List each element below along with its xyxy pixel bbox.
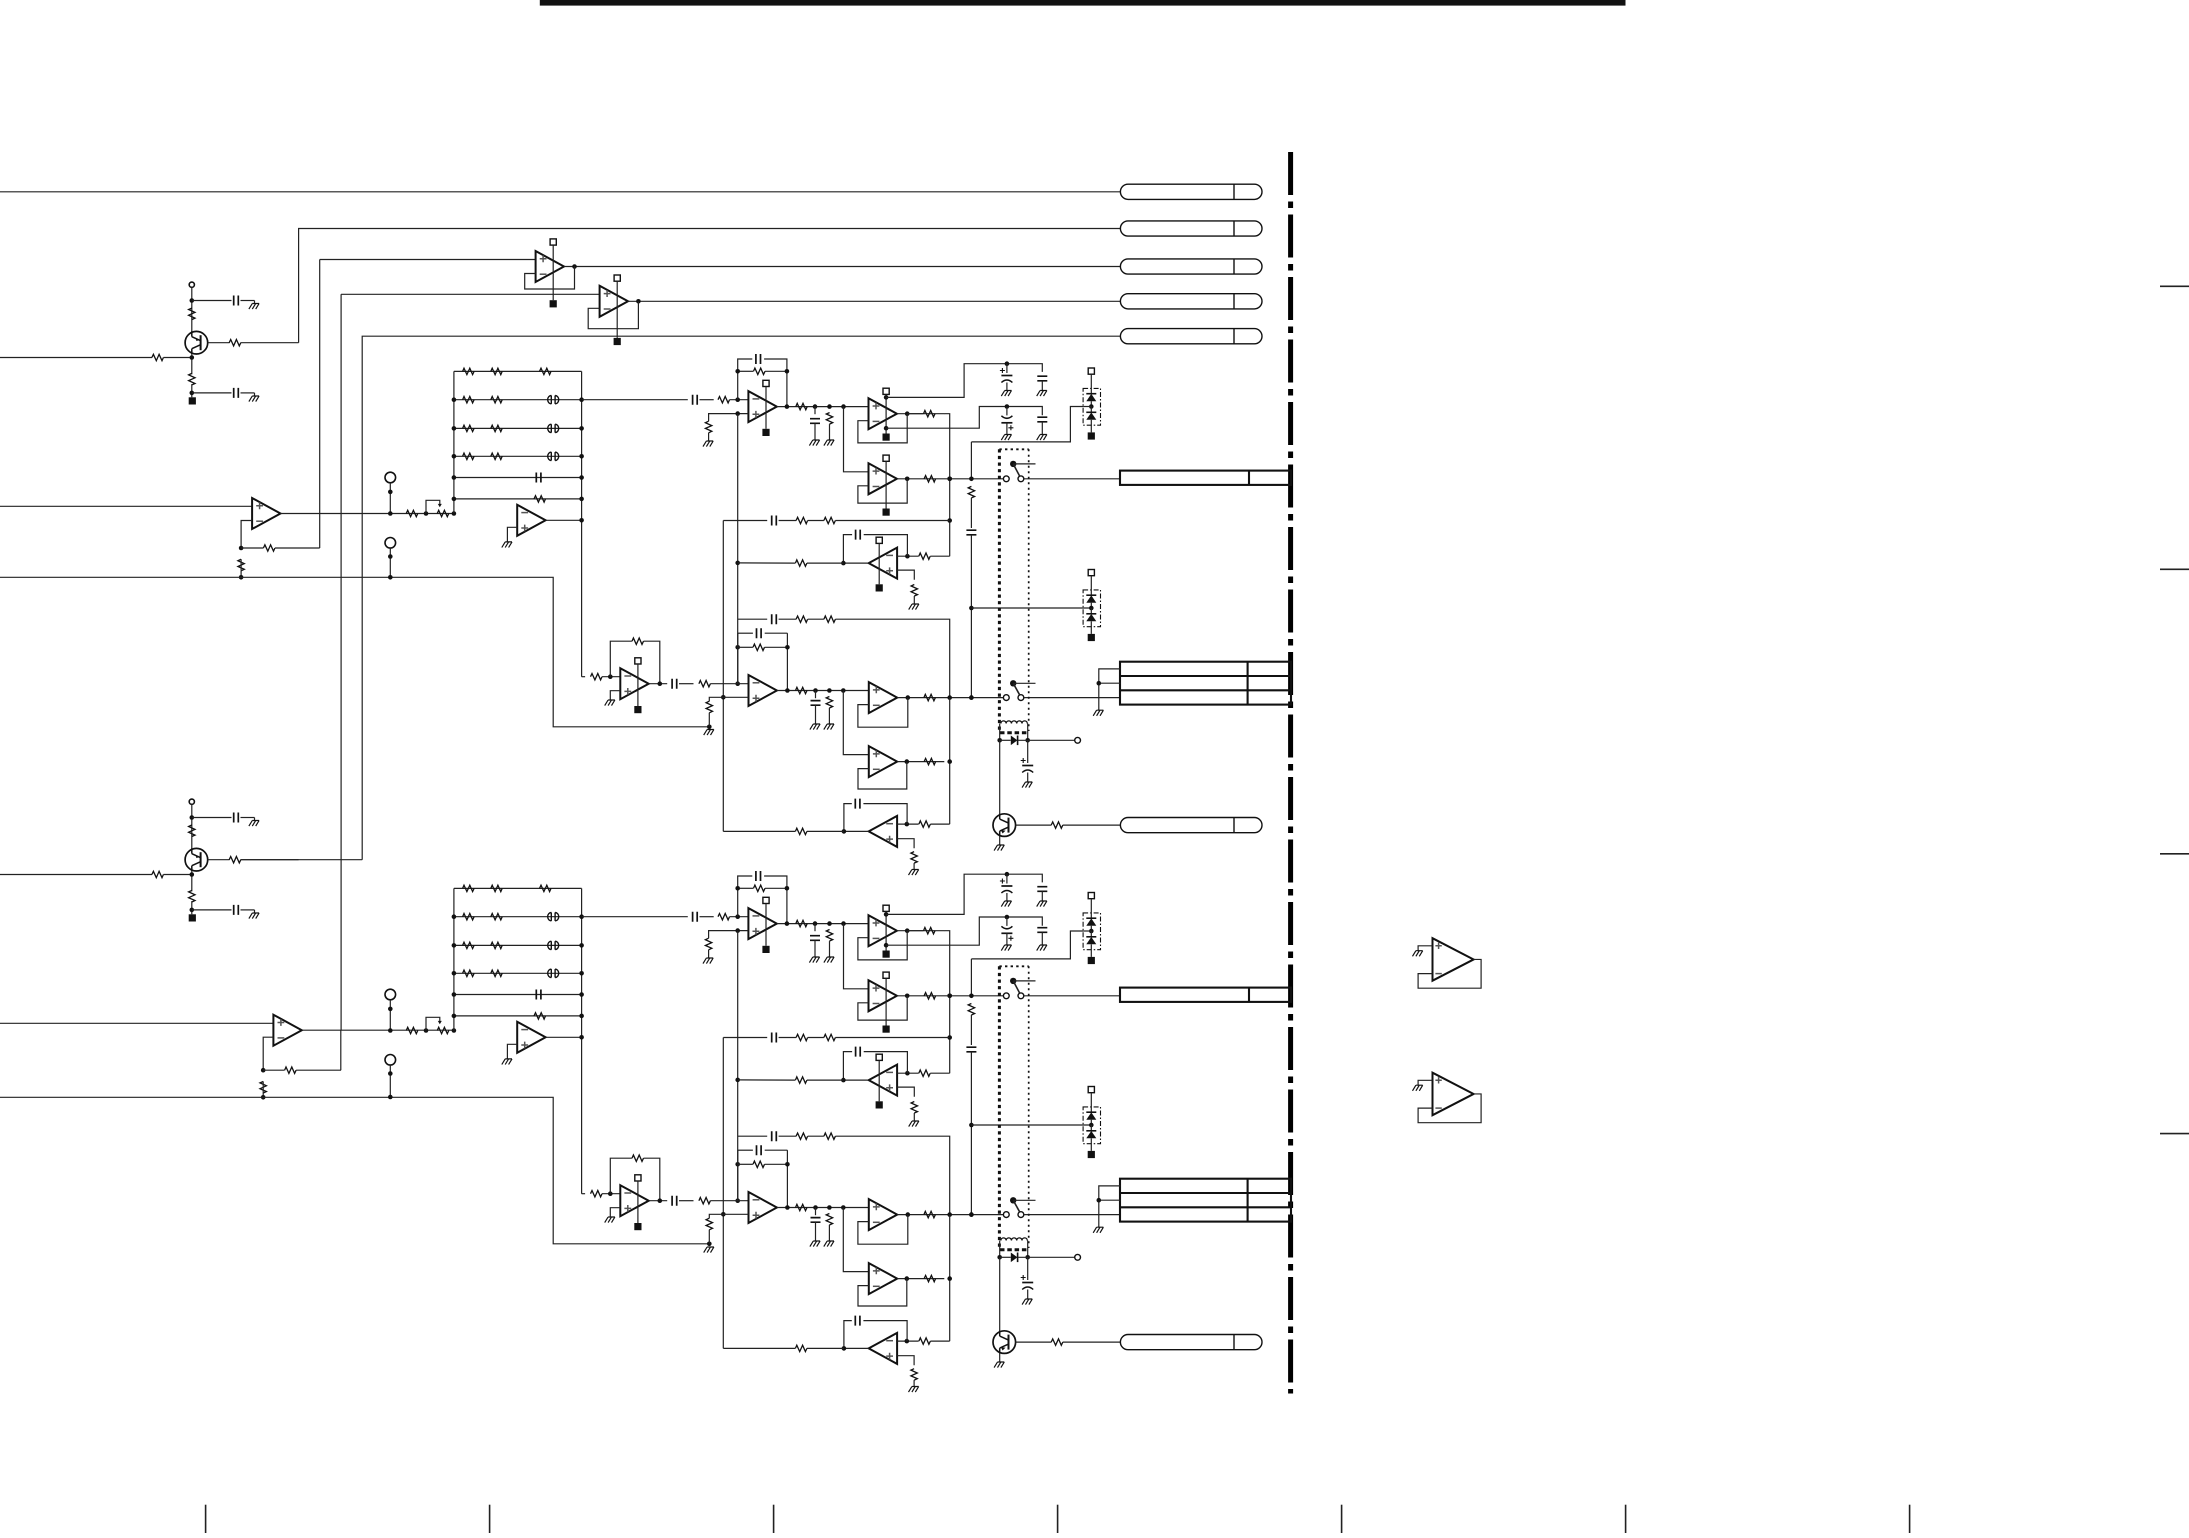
resistor B R-G6- [919,1338,931,1344]
wire B H + gnd [610,1208,620,1217]
connector CNB2 (3-pin) [1120,1179,1291,1222]
resistor A R-tone2 [824,517,836,523]
capacitor A C-G6 [855,799,860,809]
wire Q2 bias [191,804,193,849]
junction A C1 sw [947,477,952,482]
connector CNA2 (3-pin) [1120,662,1291,705]
signal ground Q1 [189,397,196,404]
connector CN7 mute B [1120,1335,1262,1350]
wire Q1 em cap gnd [241,392,255,394]
terminal Q2 bias [189,799,194,804]
wire B el lead [1027,1257,1029,1280]
wire A G2 feed [844,407,869,472]
wire CNB2 shield sh2 [1099,1199,1121,1201]
ground bus A [0,577,709,727]
terminal ATT-B T1 [385,989,396,1000]
junction B G5 out [905,1276,910,1281]
wire A G3 out a [843,562,868,564]
chassis ground Q2 1 [249,821,259,827]
wire B F fbr row2 [765,887,787,889]
wire B bus C1 [944,931,950,1073]
chassis ground B F+ [703,958,713,964]
wire B QM base2 [1063,1341,1121,1343]
diode clamp A D2 box [1083,590,1100,627]
resistor Q1 R-base [229,340,241,346]
wire B F fbr row [738,887,754,889]
junction B G4 out [906,1212,911,1217]
resistor A R-G3+ [911,585,917,597]
capacitor Q1 C-bias [234,296,239,306]
wire B H out2 [679,1200,694,1202]
resistor A R-G6+ [911,852,917,864]
wire B G6 out a [844,1347,869,1349]
capacitor ATT-B CP3 [548,941,559,949]
chassis ground ATT-A driver [502,542,512,548]
resistor ATT-B R-s1 [406,1027,418,1033]
wire A H fb2 [644,641,660,684]
resistor B R-I-out [796,1204,808,1210]
junction A G6 - [905,822,910,827]
wire A G4 out [897,697,1003,699]
resistor B R-G5 [924,1275,936,1281]
chassis ground B o2 [824,957,834,963]
relay switch A S2 lever [1013,683,1019,695]
resistor B R-I+ [706,1218,712,1230]
wire B rc1 [970,1015,972,1045]
trimmer ATT-A VR wiper [426,500,442,513]
wire A I + r [708,713,710,727]
wire B QM coll [999,1257,1001,1331]
wire ATT-A row5 [454,477,582,479]
resistor B R-F-fb [754,885,766,891]
junction ATT-A row4R [579,454,584,459]
junction U2 out [636,299,641,304]
inductor relay coil A [1001,721,1027,724]
relay switch A S2 pivot [1010,680,1016,686]
junction B F- [735,914,740,919]
junction B G3 out [841,1078,846,1083]
wire IC1b fb b [296,1069,341,1071]
junction ATT-B row5R [579,992,584,997]
op-amp B G2 V+ pin [883,972,889,1025]
wire Q1 bias [191,287,193,332]
chassis ground A QM [994,845,1004,851]
power pin B G3 [876,1054,882,1060]
wire A G6 out b [807,830,844,832]
wire A mix 3 [808,618,824,620]
relay switch B S1 contact R [1018,993,1024,999]
resistor ATT-A R11 [463,368,475,374]
wire A vp cer gnd [1041,381,1043,391]
junction B F fb L [735,886,740,891]
resistor A R-H-fb [632,638,644,644]
diode clamp B D1 diode D-up1 [1086,918,1096,931]
connector CN5 [1120,329,1262,344]
op-amp A G4 [869,682,897,713]
wire A F fb [738,359,753,400]
junction Q2 em-node [190,908,195,913]
wire A vm el gnd [1006,423,1008,435]
junction B C1 sw [947,994,952,999]
resistor A R-QM [1051,822,1063,828]
wire IC1b fb a [263,1069,284,1071]
wire IC1a buffer out [281,513,454,515]
diode clamp B D2 diode D-up2 [1086,1125,1096,1151]
wire A G2 out [897,478,1003,480]
junction ATT-A row6R [579,497,584,502]
diode clamp B D2 box [1083,1107,1100,1144]
wire Q2 base out [241,859,299,861]
wire ATT-B row2 [454,916,582,918]
wire B G3 - [897,1072,919,1074]
wire A G3 + gnd [913,596,915,604]
chassis ground CNB2 shield [1093,1227,1103,1233]
wire A vp el gnd [1006,383,1008,391]
resistor IC1a R-fb [263,545,275,551]
wire A G6 out a [844,830,869,832]
chassis ground Q1 1 [249,304,259,310]
op-amp B F GND pin [762,946,769,953]
wire B I fb capr2 [765,1149,788,1151]
op-amp A G1 GND pin [883,434,890,441]
diode clamp A D2 diode D-up1 [1086,595,1096,608]
wire A F in2 [700,399,714,401]
wire A G5 out [897,761,944,763]
chassis ground B o1 [809,957,819,963]
junction ATT-A n2 [452,511,457,516]
wire Q1 bias cap [192,300,232,302]
wire CNB2 shield sh1 [1099,1186,1121,1227]
transistor A QM [993,814,1016,837]
resistor A R-G1 [924,411,936,417]
resistor ATT-A R21 [463,397,475,403]
wire Q1 emitter [191,354,193,374]
chassis ground B vm2 [1037,945,1047,951]
junction B F+ [735,928,740,933]
wire U2 +in [341,293,599,295]
wire B G6 out c [723,1347,795,1349]
diode clamp B D2 GND pin [1088,1151,1095,1158]
wire B I fb capr [738,1149,753,1151]
junction ATT-B n2 [452,1028,457,1033]
wire CNA2 shield sh1 [1099,669,1121,710]
op-amp B G5 [869,1263,897,1294]
wire B G5 feed [843,1208,869,1272]
wire B coil lead L [999,1241,1001,1258]
wire B G5 fb [858,1279,907,1306]
junction B B g3 [735,1078,740,1083]
wire Q2 em cap [192,909,232,911]
chassis ground A H [605,700,615,706]
wire A H fb [610,641,632,677]
wire A F + in [709,414,749,422]
wire Q1 cap-gnd drop [254,301,256,304]
wire A relay row b [1018,739,1075,741]
junction A G6 out [842,829,847,834]
wire B I out [777,1207,869,1209]
wire B I fb right [786,1150,788,1207]
junction Q2 bias [190,815,195,820]
capacitor B C-o1 [810,936,820,941]
wire B G4 fb [858,1215,908,1245]
relay switch B S1 pivot [1010,978,1016,984]
resistor A R-F-fb [754,368,766,374]
diode clamp A D2 V+ pin [1088,570,1094,595]
wire B G5 out [897,1278,944,1280]
resistor A R-G5 [924,758,936,764]
wire A I fb right [786,633,788,690]
wire A I out [777,690,869,692]
wire A S1 out [1024,478,1120,480]
wire A vm cer gnd [1041,422,1043,435]
wire B vp cer gnd [1041,891,1043,901]
resistor IC1b R-fb [285,1067,297,1073]
wire ATT-A driver + gnd [507,527,517,542]
wire U2 out [627,300,1120,302]
diode clamp A D1 GND pin [1088,432,1095,439]
junction ATT-A row5L [452,475,457,480]
resistor A R-o2 [826,413,832,425]
wire A G6 out c [723,830,795,832]
wire B F out [777,923,869,925]
bottom margin tick 2 [489,1505,491,1533]
wire ATT-B ladder left rail [453,888,455,1030]
wire A o2 w [829,411,831,413]
junction ATT-A row2L [452,397,457,402]
wire A G1 out [897,413,945,415]
wire B G6 - 2 [930,1340,949,1342]
capacitor B C-relay [1021,1275,1033,1290]
wire A G3 + [897,570,914,580]
wire B F+ gnd [708,950,710,958]
wire B H out3 [710,1200,748,1202]
op-amp A H [620,668,648,699]
wire U2 riser [340,294,342,1030]
wire B vp line [886,874,1042,914]
resistor A R-sw [968,486,974,498]
capacitor Q1 C-em [234,388,239,398]
junction B io2 [827,1205,832,1210]
op-amp B H V+ pin [635,1175,641,1223]
op-amp B I [749,1192,777,1223]
wire A rc1 [970,498,972,528]
wire A o1 cap [814,407,816,415]
junction ATT-B row4R [579,971,584,976]
resistor A R-mix1 [796,616,808,622]
junction A vp tap [884,395,889,400]
junction B vm cap [1005,915,1010,920]
junction ATT-B row3L [452,943,457,948]
wire A G3 - [897,555,919,557]
bottom margin tick 4 [1057,1505,1059,1533]
op-amp ATT-B driver [517,1022,545,1053]
resistor Q2 R-in [152,871,164,877]
wire ATT-A row1 [454,370,582,372]
relay switch A S1 lever [1013,464,1019,476]
op-amp B F [748,908,776,939]
wire A F fbr row2 [765,370,787,372]
wire A F fb2 [764,359,787,407]
junction B F out [785,921,790,926]
diode clamp B D1 mid node [1089,929,1094,934]
relay switch A S1 pivot [1010,461,1016,467]
wire Q2 base to riser [241,859,363,861]
capacitor ATT-B CP2 [548,913,559,921]
resistor B R-sw [968,1004,974,1016]
chassis ground B vp2 [1037,901,1047,907]
wire Q2 em cap gnd [241,909,255,911]
wire B clamp2 feed [971,1124,1091,1126]
wire B G1 fb [858,931,907,960]
capacitor B C-G3 [856,1047,861,1057]
junction A G1 out [905,411,910,416]
wire A G6 - 2 [930,823,949,825]
wire B tone line [723,1037,767,1039]
resistor Q2 R-coll [189,825,195,837]
wire A el gnd [1027,773,1029,783]
wire U1 +in [320,259,536,261]
wire B H fb2 [644,1158,660,1201]
wire A G6 fb cap [844,804,852,832]
wire ATT-A row2 [454,399,582,401]
wire A G1 r2 [907,413,923,415]
wire B tone 4 [835,1037,949,1039]
junction ATT-A row6L [452,497,457,502]
relay switch A S1 contact R [1018,476,1024,482]
wire A G5 feed [843,691,869,755]
connector CN1 [1120,184,1262,199]
capacitor B C-F-fb [756,871,761,881]
wire B G3 fb cap2 [864,1052,908,1074]
capacitor B C-vp el [1000,879,1013,894]
junction A I fbr R [785,645,790,650]
resistor B R-G3- [919,1070,930,1076]
capacitor B C-vm el [1001,926,1013,941]
junction B G6 - [905,1339,910,1344]
resistor ATT-B R11 [463,885,475,891]
op-amp A H GND pin [634,706,641,713]
wire ATT-B driver out [546,1036,582,1038]
wire Q2 signal in [0,874,152,876]
junction A io1 [813,688,818,693]
junction A vm tap [884,426,889,431]
wire B G3 - 2 [930,1072,949,1074]
chassis ground A o2 [824,440,834,446]
junction A B g3 [735,561,740,566]
resistor B R-io2 [826,1214,832,1226]
resistor A R-I-out [796,687,808,693]
wire B vm line [886,917,1042,945]
relay switch A S2 common line [1013,682,1035,684]
op-amp A G5 [869,746,897,777]
wire ATT-A row4 [454,455,582,457]
wire A G6 fb cap2 [863,804,907,825]
resistor B R-H-out [699,1198,711,1204]
resistor A R-F-in [718,397,730,403]
capacitor A C-F-fb [756,354,761,364]
wire A H in2 [602,676,620,678]
op-amp A G3 [869,548,897,579]
junction bus B end [707,1242,712,1247]
capacitor B C-F-in [693,912,698,922]
resistor B R-G2 [924,993,936,999]
wire Q1 signal in [0,357,152,359]
wire B I fbr a [738,1163,753,1165]
wire A G3 out c [738,562,796,564]
wire IC1b fb gnd a [262,1081,264,1093]
op-amp U1 GND pin [550,300,557,307]
resistor A R-G3- [919,553,930,559]
resistor ATT-A R22 [491,397,502,403]
junction ATT-A row2R [579,397,584,402]
wire B vm el gnd [1006,933,1008,945]
op-amp U2 [600,286,628,317]
op-amp B G1 V+ pin [883,905,889,950]
wire B G1 r2 [907,930,923,932]
wire A tone 3 [808,520,824,522]
wire IC1a fb a [241,547,263,549]
wire U1 out [564,266,1120,268]
relay switch A S2 contact R [1018,695,1024,701]
junction B vm tap [884,943,889,948]
op-amp A G1 [869,398,897,429]
relay switch A S1 common line [1013,463,1035,465]
junction A G4 n2 [969,695,974,700]
wire B io1 gnd w [815,1222,817,1241]
resistor B R-mix1 [796,1133,808,1139]
wire B el gnd [1027,1290,1029,1300]
wire ATT-A row3 [454,427,582,429]
chassis ground bus A [704,730,714,736]
wire ATT-A T1 drop [389,483,391,514]
resistor ATT-B R22 [491,914,502,920]
op-amp U2 V+ pin [614,275,620,338]
signal ground Q2 [189,914,196,921]
chassis ground B relay [1022,1299,1032,1305]
resistor A R-F-out [796,403,807,409]
wire A G3 - 2 [930,555,949,557]
capacitor A C-vp cer [1037,376,1047,381]
bottom margin tick 6 [1625,1505,1627,1533]
op-amp IC10a [1433,938,1474,981]
wire A F in3 [730,399,749,401]
wire A o2 gnd w [829,424,831,440]
resistor B R-F-out [796,920,807,926]
resistor ATT-B R41 [463,970,475,976]
junction ATT-B row4L [452,971,457,976]
wire IC1b buffer +in [0,1022,273,1024]
right margin tick 3 [2160,853,2189,855]
wire A io1 w [815,691,817,699]
capacitor B C-vm cer [1037,928,1047,933]
junction A o3 [841,404,846,409]
capacitor A C-F-in [693,395,698,405]
op-amp IC1b buffer [273,1015,301,1046]
wire B mix line [738,1135,768,1137]
wire B G6 + gnd [913,1380,915,1386]
resistor ATT-A R13 [540,368,552,374]
connector CN6 mute A [1120,818,1262,833]
chassis ground A vm1 [1001,435,1011,441]
wire A vm line [886,407,1042,429]
junction ATT-A n1 [424,511,429,516]
junction B o3 [841,921,846,926]
wire A F in [582,399,688,401]
junction IC1b fb [261,1068,266,1073]
wire B S1 out [1024,995,1120,997]
ground pin B G3 [876,1101,883,1108]
wire A io2 gnd w [828,708,830,724]
